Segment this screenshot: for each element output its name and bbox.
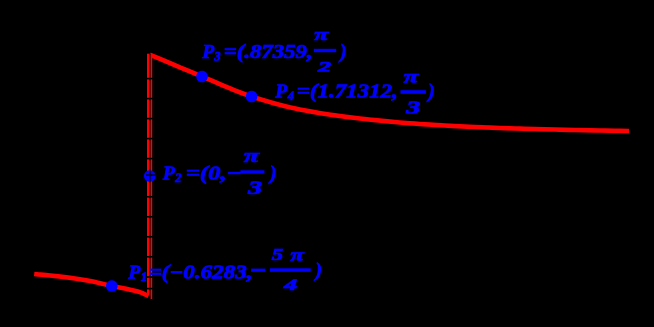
svg-text:π: π bbox=[291, 245, 306, 264]
svg-text:4: 4 bbox=[287, 89, 294, 103]
svg-text:2: 2 bbox=[316, 60, 332, 76]
svg-text:P: P bbox=[274, 81, 288, 102]
point P1 bbox=[106, 280, 118, 292]
svg-text:5: 5 bbox=[272, 245, 284, 264]
svg-text:π: π bbox=[314, 25, 330, 44]
label P2 bbox=[162, 147, 277, 199]
svg-text:): ) bbox=[268, 163, 277, 184]
svg-text:4: 4 bbox=[282, 277, 297, 294]
svg-text:3: 3 bbox=[213, 50, 220, 64]
label P4 bbox=[274, 66, 435, 117]
svg-text:1: 1 bbox=[141, 270, 147, 284]
svg-text:=(1.71312,: =(1.71312, bbox=[297, 81, 398, 102]
y-axis tick bbox=[146, 236, 157, 238]
svg-text:): ) bbox=[314, 260, 323, 281]
svg-text:π: π bbox=[244, 147, 261, 167]
y-axis tick y=pi/6 bbox=[146, 118, 157, 120]
y-axis tick bbox=[146, 216, 157, 218]
label P1 bbox=[127, 245, 322, 294]
svg-text:P: P bbox=[162, 163, 176, 184]
svg-text:=(0,−: =(0,− bbox=[186, 163, 242, 184]
svg-text:P: P bbox=[127, 263, 141, 284]
svg-text:2: 2 bbox=[174, 171, 181, 185]
y-axis tick y=pi/3 bbox=[146, 98, 157, 100]
svg-text:=(−0.6283,: =(−0.6283, bbox=[149, 263, 253, 284]
curve right branch (x&gt;0) bbox=[150, 55, 629, 131]
y-axis (black, over curve) bbox=[149, 54, 150, 299]
svg-text:P: P bbox=[201, 42, 215, 63]
y-axis tick y=-5pi/4 bbox=[146, 288, 157, 290]
label P3 bbox=[201, 25, 346, 75]
y-axis tick y=-pi/6 bbox=[146, 158, 157, 160]
svg-text:π: π bbox=[404, 66, 420, 86]
point P3 bbox=[196, 71, 208, 83]
curve vertical jump segment at x=0 bbox=[147, 54, 152, 294]
y-axis tick bbox=[146, 256, 157, 258]
svg-text:): ) bbox=[426, 81, 435, 102]
svg-text:3: 3 bbox=[405, 98, 421, 118]
y-axis tick bbox=[146, 276, 157, 278]
curve left branch (x&lt;0) bbox=[34, 274, 148, 296]
y-axis tick bbox=[146, 196, 157, 198]
point P2 bbox=[144, 170, 156, 182]
y-axis tick y=-pi/3 (crosses point P2) bbox=[146, 174, 157, 176]
y-axis tick y=0 bbox=[146, 138, 157, 140]
svg-text:): ) bbox=[338, 42, 347, 63]
y-axis tick y=pi/2 bbox=[146, 78, 157, 80]
svg-text:3: 3 bbox=[247, 179, 263, 199]
point P4 bbox=[246, 91, 258, 103]
svg-text:=(.87359,: =(.87359, bbox=[224, 42, 313, 63]
